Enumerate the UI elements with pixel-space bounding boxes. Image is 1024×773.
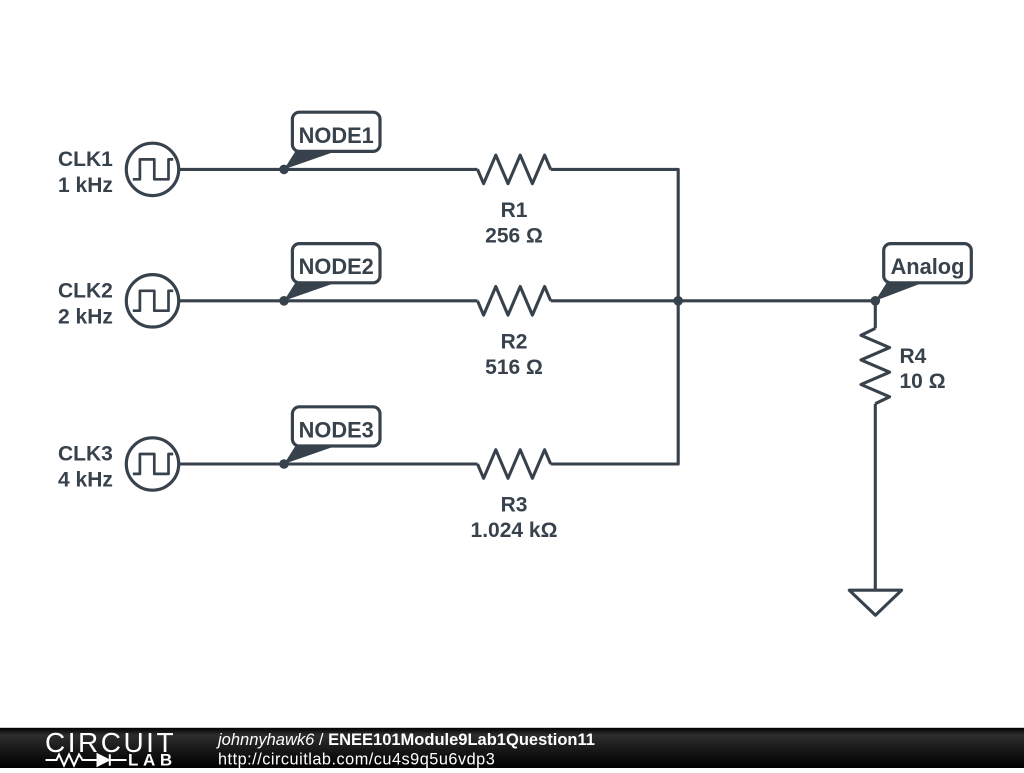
label R3 1.024 kohm	[471, 494, 558, 542]
svg-text:Analog: Analog	[891, 254, 965, 279]
logo resistor-diode squiggle	[46, 754, 127, 766]
wire R4 to ground	[874, 404, 877, 591]
node dot NODE3	[279, 459, 289, 469]
resistor R2	[478, 287, 551, 316]
ground	[849, 590, 901, 615]
label CLK3 4 kHz	[58, 443, 113, 492]
svg-text:johnnyhawk6 / ENEE101Module9La: johnnyhawk6 / ENEE101Module9Lab1Question…	[216, 731, 595, 749]
svg-text:LAB: LAB	[128, 750, 177, 768]
junction node dot on bus	[673, 296, 683, 306]
voltage source CLK3	[126, 438, 178, 490]
resistor R1	[478, 155, 551, 184]
svg-text:CLK1: CLK1	[58, 148, 113, 171]
wire R2 to Analog node	[551, 301, 876, 329]
svg-text:10 Ω: 10 Ω	[900, 370, 946, 393]
svg-text:NODE3: NODE3	[299, 417, 374, 442]
svg-text:R1: R1	[501, 199, 528, 222]
svg-text:1.024 kΩ: 1.024 kΩ	[471, 519, 558, 542]
flag NODE3	[284, 407, 380, 464]
svg-text:R4: R4	[900, 345, 927, 368]
voltage source CLK1	[126, 143, 178, 195]
node dot Analog	[871, 296, 881, 306]
node dot NODE2	[279, 296, 289, 306]
wire R1 to bus	[551, 169, 679, 300]
svg-text:R2: R2	[501, 330, 528, 353]
svg-text:CLK2: CLK2	[58, 280, 113, 303]
label R4 10 ohm	[900, 345, 946, 393]
label CLK1 1 kHz	[58, 148, 113, 197]
svg-text:R3: R3	[501, 494, 528, 517]
svg-text:1 kHz: 1 kHz	[58, 174, 113, 197]
svg-text:NODE1: NODE1	[299, 123, 374, 148]
flag NODE2	[284, 244, 380, 301]
svg-text:http://circuitlab.com/cu4s9q5u: http://circuitlab.com/cu4s9q5u6vdp3	[218, 751, 495, 769]
svg-text:CLK3: CLK3	[58, 443, 113, 466]
label R2 516 ohm	[485, 330, 543, 378]
wire R3 to bus	[551, 301, 679, 464]
svg-text:256 Ω: 256 Ω	[485, 224, 543, 247]
flag Analog	[875, 244, 971, 301]
svg-text:2 kHz: 2 kHz	[58, 305, 113, 328]
wire CLK2 to R2	[180, 299, 478, 302]
label R1 256 ohm	[485, 199, 543, 247]
footer bar	[0, 728, 1024, 768]
resistor R3	[478, 450, 551, 479]
node dot NODE1	[279, 165, 289, 175]
wire CLK3 to R3	[180, 462, 478, 465]
svg-text:4 kHz: 4 kHz	[58, 469, 113, 492]
label CLK2 2 kHz	[58, 280, 113, 329]
wire CLK1 to R1	[180, 168, 478, 171]
flag NODE1	[284, 112, 380, 169]
voltage source CLK2	[126, 275, 178, 327]
resistor R4	[861, 328, 890, 403]
svg-text:NODE2: NODE2	[299, 254, 374, 279]
svg-text:516 Ω: 516 Ω	[485, 356, 543, 379]
